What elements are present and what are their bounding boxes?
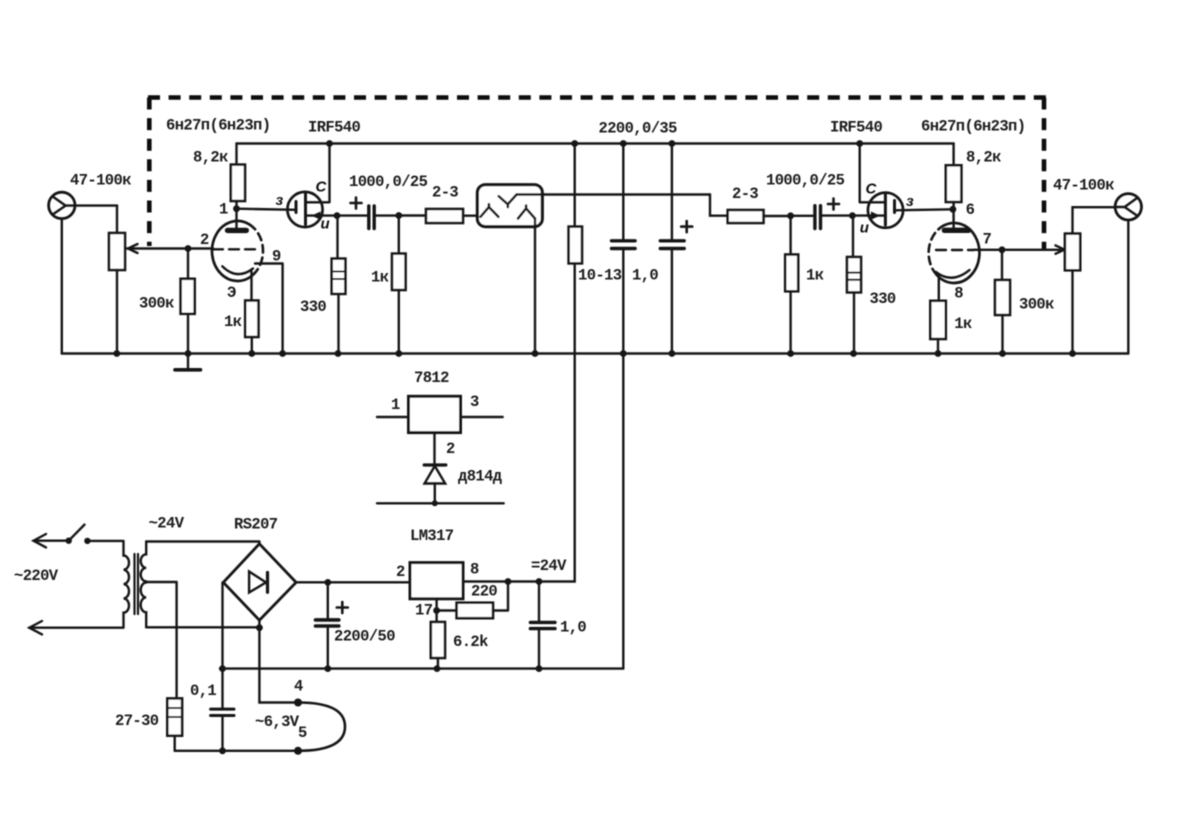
svg-text:8,2к: 8,2к	[966, 149, 1001, 167]
svg-text:RS207: RS207	[234, 516, 278, 534]
svg-text:6: 6	[966, 201, 975, 219]
svg-text:1,0: 1,0	[632, 267, 658, 285]
svg-text:1к: 1к	[371, 269, 389, 287]
svg-text:IRF540: IRF540	[830, 119, 883, 137]
svg-text:~24V: ~24V	[149, 515, 185, 533]
svg-text:1: 1	[391, 396, 400, 414]
svg-text:2200/50: 2200/50	[334, 628, 395, 646]
svg-text:47-100к: 47-100к	[70, 172, 131, 190]
svg-text:330: 330	[870, 290, 896, 308]
svg-text:з: з	[906, 193, 914, 210]
svg-text:5: 5	[298, 724, 307, 742]
svg-text:IRF540: IRF540	[308, 119, 361, 137]
svg-text:330: 330	[300, 298, 326, 316]
svg-text:220: 220	[471, 583, 497, 601]
svg-text:300к: 300к	[139, 295, 174, 313]
svg-text:C: C	[866, 181, 878, 198]
svg-text:7: 7	[983, 231, 992, 249]
svg-text:2-3: 2-3	[432, 184, 458, 202]
svg-text:17: 17	[415, 602, 433, 620]
svg-text:Э: Э	[227, 284, 236, 302]
svg-text:з: з	[276, 192, 284, 209]
svg-text:д814д: д814д	[458, 468, 502, 486]
svg-text:и: и	[860, 220, 869, 237]
svg-text:1к: 1к	[954, 315, 972, 333]
svg-text:C: C	[316, 179, 328, 196]
svg-text:1000,0/25: 1000,0/25	[766, 172, 845, 190]
svg-text:2200,0/35: 2200,0/35	[599, 120, 678, 138]
svg-text:8: 8	[954, 285, 963, 303]
svg-text:2-3: 2-3	[732, 185, 758, 203]
svg-text:1: 1	[219, 201, 228, 219]
svg-text:6н27п(6н23п): 6н27п(6н23п)	[166, 117, 270, 135]
svg-text:0,1: 0,1	[190, 682, 216, 700]
svg-text:1к: 1к	[806, 267, 824, 285]
svg-text:=24V: =24V	[531, 557, 567, 575]
svg-text:1к: 1к	[224, 313, 242, 331]
svg-text:1000,0/25: 1000,0/25	[349, 173, 428, 191]
svg-text:6н27п(6н23п): 6н27п(6н23п)	[921, 118, 1025, 136]
svg-text:3: 3	[470, 393, 479, 411]
svg-text:~6,3V: ~6,3V	[255, 713, 300, 731]
svg-text:~220V: ~220V	[14, 567, 59, 585]
svg-text:7812: 7812	[414, 369, 449, 387]
svg-text:10-13: 10-13	[578, 267, 622, 285]
svg-text:2: 2	[396, 563, 405, 581]
svg-text:LM317: LM317	[410, 527, 454, 545]
svg-text:и: и	[321, 216, 330, 233]
svg-text:47-100к: 47-100к	[1053, 177, 1114, 195]
svg-text:9: 9	[272, 248, 281, 266]
svg-text:6.2k: 6.2k	[453, 633, 488, 651]
svg-text:2: 2	[200, 231, 209, 249]
svg-text:1,0: 1,0	[560, 619, 586, 637]
svg-text:8,2к: 8,2к	[193, 149, 228, 167]
svg-text:27-30: 27-30	[115, 712, 159, 730]
svg-text:300к: 300к	[1019, 296, 1054, 314]
svg-text:4: 4	[294, 678, 303, 696]
svg-text:8: 8	[470, 561, 479, 579]
svg-text:2: 2	[446, 440, 455, 458]
